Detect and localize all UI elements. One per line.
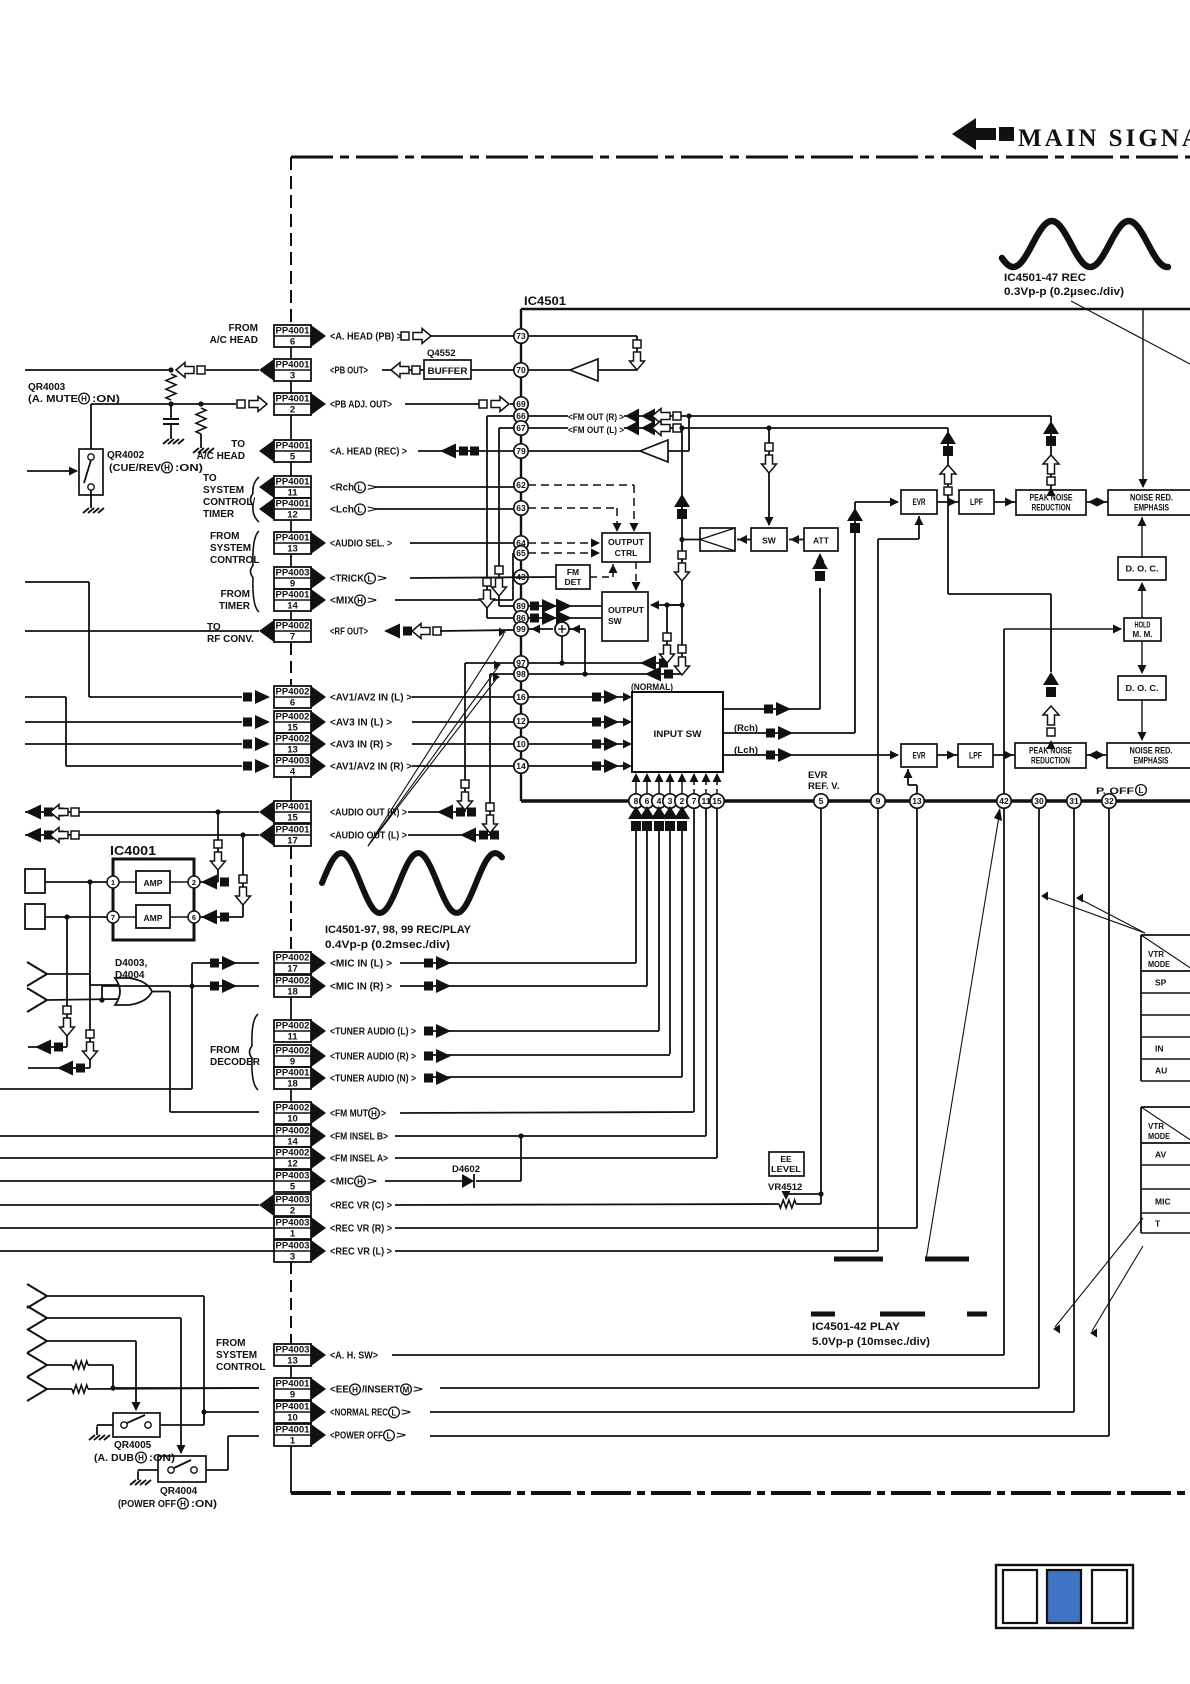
- svg-text:<A. H. SW>: <A. H. SW>: [330, 1351, 378, 1362]
- symbol black arrow A.HEAD(REC): [440, 444, 479, 459]
- wire chevron1 to NORMAL REC: [47, 1296, 207, 1423]
- svg-text:PP4002: PP4002: [276, 1147, 310, 1158]
- main signal legend arrow icon: [952, 118, 1014, 150]
- svg-text:IC4501-97, 98, 99 REC/PLAY: IC4501-97, 98, 99 REC/PLAY: [325, 924, 472, 936]
- svg-text:PP4002: PP4002: [276, 1020, 310, 1031]
- svg-text:TO: TO: [231, 439, 245, 450]
- svg-text:LPF: LPF: [969, 751, 982, 761]
- svg-text:6: 6: [290, 337, 295, 348]
- svg-text:14: 14: [516, 761, 526, 771]
- svg-text:30: 30: [1034, 796, 1044, 806]
- amp A2 box: [136, 905, 170, 928]
- IC4501 pin 73: [514, 329, 528, 343]
- svg-text:D4003,: D4003,: [115, 958, 147, 969]
- group label FROM SYSTEM CONTROL: [210, 531, 259, 566]
- svg-text:PP4001: PP4001: [276, 532, 311, 543]
- symbol sq-arrow pin89: [530, 599, 572, 614]
- wire riser to OUTPUT SW input: [650, 601, 685, 610]
- svg-text:D. O. C.: D. O. C.: [1126, 683, 1159, 693]
- connector PP4003 pin9 TRICK: [274, 567, 387, 590]
- block SW: [751, 528, 787, 551]
- svg-text:<Lch: <Lch: [330, 505, 354, 516]
- svg-text:AU: AU: [1155, 1066, 1167, 1076]
- switch QR4002: [79, 449, 103, 495]
- symbol cluster AUDIO OUT(R) left: [25, 805, 79, 820]
- wire pin feed x659 into INPUT SW: [655, 773, 664, 794]
- connector PP4001 pin11 Rch: [259, 476, 377, 499]
- svg-text:BUFFER: BUFFER: [428, 366, 469, 376]
- svg-text:7: 7: [692, 796, 697, 806]
- wire QR4005 left ground: [89, 1425, 113, 1440]
- svg-text:79: 79: [516, 446, 526, 456]
- svg-text:EVR: EVR: [808, 770, 828, 781]
- svg-text::ON): :ON): [92, 394, 120, 405]
- wire INPUT SW Rch output: [723, 502, 855, 733]
- wire REC VR(R) row: [395, 808, 917, 1228]
- connector column solid link segments: [290, 347, 292, 1493]
- svg-text:PP4002: PP4002: [276, 733, 310, 744]
- svg-text:<MIC: <MIC: [330, 1177, 354, 1188]
- svg-text:EMPHASIS: EMPHASIS: [1134, 503, 1169, 513]
- wire buffer to pin70: [471, 369, 514, 371]
- svg-text:PP4003: PP4003: [276, 1170, 310, 1181]
- wire REC triangle riser: [686, 413, 691, 451]
- block LPF row2: [958, 744, 993, 767]
- svg-text:L: L: [358, 505, 363, 514]
- svg-text:<AUDIO OUT (L) >: <AUDIO OUT (L) >: [330, 831, 407, 842]
- svg-text:11: 11: [287, 1032, 298, 1043]
- wire exit y1089: [0, 1088, 192, 1090]
- wire pin89 row: [499, 605, 602, 607]
- symbol sq-arrow MIC IN(L) right: [424, 956, 451, 970]
- wire pin feed x647 into INPUT SW: [643, 773, 652, 794]
- wire pin feed x636 into INPUT SW: [632, 773, 641, 794]
- svg-text:16: 16: [516, 692, 526, 702]
- wire join riser x192: [191, 963, 193, 1089]
- IC4501 pin 67: [514, 421, 528, 435]
- wire Rch to EVR: [855, 498, 899, 507]
- wire MIC IN(L) left segment: [192, 962, 259, 964]
- svg-text:NOISE RED.: NOISE RED.: [1130, 746, 1173, 756]
- group label FROM A/C HEAD: [210, 323, 258, 346]
- wire REC VR(C) row left: [0, 1204, 259, 1206]
- svg-text:<AUDIO SEL. >: <AUDIO SEL. >: [330, 539, 392, 550]
- wire FM OUT(R) riser x1051: [1050, 416, 1052, 490]
- block INPUT SW: [632, 692, 723, 772]
- IC U1 IC4501 label: [524, 294, 566, 308]
- symbol dbl arrow FM OUT(L): [625, 421, 681, 436]
- wire top feed to NRE1: [1139, 309, 1148, 488]
- IC4501 pin 5: [814, 794, 828, 808]
- symbol black up stack Rch riser: [847, 508, 863, 533]
- symbol black up stack below pin x659: [651, 806, 667, 831]
- wire amp2 internal: [119, 916, 188, 918]
- svg-text:PEAK NOISE: PEAK NOISE: [1029, 746, 1072, 756]
- page border dash-dot bottom: [291, 1491, 1190, 1495]
- svg-text:PP4003: PP4003: [276, 567, 310, 578]
- wire AV1/AV2 IN(L) feed: [89, 696, 242, 698]
- wire exit y1068: [28, 1067, 90, 1069]
- summing node plus circle: [555, 622, 569, 636]
- wire pin42 riser to HOLD: [1004, 625, 1122, 795]
- wire pin97 row to OUTPUT SW drop: [528, 662, 667, 664]
- resistor chevron4: [47, 1361, 88, 1369]
- wire RF OUT label to pin99: [440, 630, 514, 631]
- wire DOC lower to NRE2: [1138, 700, 1147, 741]
- svg-text:63: 63: [516, 503, 526, 513]
- symbol sq-arrow TUNER(N): [424, 1071, 451, 1085]
- svg-text:PP4002: PP4002: [276, 711, 310, 722]
- block EVR row2: [901, 744, 937, 767]
- dashed wire pin63 to OUTPUT CTRL: [528, 508, 622, 532]
- svg-text:13: 13: [287, 544, 298, 555]
- wire TUNER AUDIO(R) row: [424, 1054, 670, 1056]
- block ATT: [804, 528, 838, 551]
- symbol sq-arrow normal out: [764, 702, 791, 716]
- wire SW top feed: [765, 425, 774, 526]
- svg-text:5: 5: [290, 452, 296, 463]
- svg-text:<AV3 IN (L) >: <AV3 IN (L) >: [330, 718, 392, 729]
- svg-text:70: 70: [516, 365, 526, 375]
- symbol black arrow row663: [640, 656, 668, 671]
- wire pin86 row: [487, 617, 602, 619]
- svg-text:CTRL: CTRL: [615, 548, 638, 558]
- chevron input lower left: [27, 988, 47, 1012]
- connector PP4001 pin3 PB OUT: [259, 359, 368, 382]
- wire from left edge y582: [25, 582, 89, 697]
- wire summing right leg: [569, 625, 588, 677]
- svg-text:EE: EE: [780, 1154, 792, 1164]
- potentiometer VR4512: [779, 1191, 824, 1208]
- wire RF OUT row: [25, 630, 259, 632]
- svg-text:69: 69: [516, 399, 526, 409]
- block DOC lower: [1118, 676, 1166, 700]
- svg-text:<REC VR (R) >: <REC VR (R) >: [330, 1224, 392, 1235]
- svg-text:13: 13: [287, 1356, 298, 1367]
- group label FROM TIMER: [219, 589, 251, 612]
- chevron bottom 5: [27, 1377, 47, 1401]
- svg-text:<FM OUT (L) >: <FM OUT (L) >: [568, 425, 624, 436]
- wire EVR to LPF row1: [937, 498, 959, 507]
- IC4501 pin 70: [514, 363, 528, 377]
- wire amp1 internal: [119, 881, 188, 883]
- svg-text:DECODER: DECODER: [210, 1057, 261, 1068]
- symbol black arrow AUDIO OUT(L) right: [460, 828, 499, 843]
- IC4501 pin 32: [1102, 794, 1116, 808]
- wire stub to pin1: [45, 879, 107, 884]
- IC4501 pin 16: [514, 690, 528, 704]
- wire HOLD to DOC lower: [1138, 641, 1147, 674]
- IC4001 pin 2: [188, 876, 200, 888]
- svg-text:PP4001: PP4001: [276, 476, 311, 487]
- symbol open sq-arrow down x243: [236, 875, 251, 905]
- svg-text:<TUNER AUDIO (N) >: <TUNER AUDIO (N) >: [330, 1074, 416, 1085]
- svg-text:<MIC IN (L) >: <MIC IN (L) >: [330, 959, 392, 970]
- wire MIC IN(R) left hook: [102, 983, 259, 1000]
- wire OUTPUT SW lower tap x667: [664, 602, 682, 663]
- svg-text:FROM: FROM: [229, 323, 258, 334]
- group label FROM DECODER: [210, 1045, 261, 1068]
- svg-text:LPF: LPF: [970, 497, 983, 507]
- wire pin9 riser to EVR1: [878, 516, 924, 794]
- svg-text:PP4002: PP4002: [276, 1045, 310, 1056]
- wire pin6 to riser x243: [200, 832, 246, 917]
- svg-text:1: 1: [111, 878, 115, 887]
- IC4501 pin 98: [514, 667, 528, 681]
- IC4501 pin 13: [910, 794, 924, 808]
- IC4501 pin 64: [514, 536, 528, 550]
- symbol open sq-arrow down x682 lower: [675, 645, 690, 675]
- symbol sq-arrow AV3 IN(R): [243, 737, 270, 751]
- svg-text:<EE: <EE: [330, 1385, 349, 1396]
- ground below capacitor: [163, 431, 184, 444]
- leader arrows to pins 99/97/98: [368, 628, 506, 847]
- svg-text:H: H: [164, 463, 170, 472]
- IC4001 pin 1: [107, 876, 119, 888]
- svg-text:2: 2: [290, 1206, 295, 1217]
- wire crossed box output riser: [679, 425, 700, 674]
- svg-text:5.0Vp-p (10msec./div): 5.0Vp-p (10msec./div): [812, 1336, 930, 1348]
- capacitor C near QR4003: [163, 404, 179, 431]
- label Lch output: [734, 745, 758, 756]
- svg-text:MIC: MIC: [1155, 1197, 1171, 1207]
- wire chevron2 to OR gate: [47, 997, 119, 1002]
- IC4001 pin 6: [188, 911, 200, 923]
- wire pin feed x694 into INPUT SW: [690, 773, 699, 794]
- svg-text:FM: FM: [567, 567, 579, 577]
- brace FROM SYSTEM CONTROL: [251, 531, 260, 612]
- svg-text:<FM INSEL A>: <FM INSEL A>: [330, 1154, 388, 1165]
- svg-text:IC4001: IC4001: [110, 843, 156, 858]
- svg-text:SW: SW: [762, 536, 777, 546]
- connector PP4001 pin2 PB ADJ.OUT: [274, 393, 392, 416]
- pin label EVR REF.V.: [808, 770, 839, 792]
- IC4501 pin 2: [675, 794, 689, 808]
- wire ATT to SW: [789, 535, 804, 544]
- svg-text:89: 89: [516, 601, 526, 611]
- symbol black arrow pin2: [201, 875, 229, 890]
- wire chevron2 to QR4004: [47, 1318, 186, 1454]
- wire into QR4002: [27, 467, 78, 476]
- connector PP4003 pin4 AV1/AV2 IN(R): [274, 755, 412, 778]
- svg-text:>: >: [396, 1431, 406, 1442]
- input stub box lower: [25, 904, 45, 929]
- brace TO SYSTEM CONTROL/TIMER: [251, 477, 260, 522]
- symbol black up stack below pin x682: [674, 806, 690, 831]
- buffer box Q4552: [424, 360, 471, 379]
- svg-text:NOISE RED.: NOISE RED.: [1130, 493, 1173, 503]
- wire AV row y766 label to pin: [412, 765, 514, 767]
- svg-text:PP4001: PP4001: [276, 589, 311, 600]
- group label TO A/C HEAD: [197, 439, 246, 462]
- IC4501 pin 43: [514, 570, 528, 584]
- label NORMAL above INPUT SW: [631, 682, 673, 693]
- wire A.HEAD(PB) row: [430, 335, 514, 337]
- svg-text:QR4002: QR4002: [107, 450, 145, 461]
- svg-text::ON): :ON): [191, 1499, 217, 1510]
- dashed wire pin62 to OUTPUT CTRL: [528, 485, 639, 532]
- svg-text:FROM: FROM: [210, 531, 239, 542]
- svg-text:<RF OUT>: <RF OUT>: [330, 627, 368, 638]
- attenuator crossed box: [700, 528, 735, 551]
- wire MIX row: [395, 599, 513, 601]
- svg-text:OUTPUT: OUTPUT: [608, 605, 645, 615]
- svg-text:15: 15: [712, 796, 722, 806]
- block OUTPUT CTRL: [602, 533, 650, 562]
- svg-text:(NORMAL): (NORMAL): [631, 682, 673, 693]
- symbol open sq-arrow down x67: [60, 1006, 75, 1036]
- symbol open sq-arrow down x490: [483, 803, 498, 833]
- svg-text:<MIX: <MIX: [330, 596, 354, 607]
- symbol open sq-arrow down x487: [480, 578, 495, 608]
- wire pin5 drop to VR4512: [820, 808, 822, 1194]
- symbol sq-arrow into INPUT SW y722: [592, 715, 619, 729]
- wire AV row y722 label to pin: [412, 721, 514, 723]
- block OUTPUT SW: [602, 592, 648, 641]
- symbol open square-arrow PB ADJ right: [479, 397, 509, 412]
- svg-text:H: H: [357, 1177, 363, 1186]
- block EVR row1: [901, 490, 937, 514]
- wire drop pin2 to TUNER(N): [681, 831, 683, 1077]
- symbol sq-arrow into INPUT SW y744: [592, 737, 619, 751]
- connector PP4001 pin6 A.HEAD(PB): [274, 325, 402, 348]
- symbol open sq-arrow down x90: [83, 1030, 98, 1060]
- svg-text:18: 18: [287, 987, 298, 998]
- symbol black up stack below pin x636: [628, 806, 644, 831]
- svg-text:PP4001: PP4001: [276, 801, 311, 812]
- resistor chevron5: [47, 1385, 88, 1393]
- wire AV row y766 pin to INPUT SW: [528, 762, 632, 771]
- svg-text:VR4512: VR4512: [768, 1182, 802, 1193]
- svg-text:73: 73: [516, 331, 526, 341]
- svg-text:TIMER: TIMER: [219, 601, 251, 612]
- diode-OR gate D4003/D4004: [115, 978, 152, 1005]
- wire FM INSEL B row left: [0, 1135, 274, 1137]
- svg-text:3: 3: [290, 371, 295, 382]
- dashed wire pin65 to OUTPUT CTRL: [528, 549, 600, 558]
- IC4501 pin 63: [514, 501, 528, 515]
- group label FROM SYSTEM CONTROL bottom: [216, 1338, 265, 1373]
- svg-text:(POWER OFF: (POWER OFF: [118, 1499, 176, 1510]
- wire PB ADJ OUT row right: [405, 403, 480, 405]
- svg-text:>: >: [377, 574, 387, 585]
- waveform IC4501-42 PLAY square: [811, 1259, 987, 1314]
- wire pin42 drop to A.H.SW: [392, 808, 1004, 1355]
- wire INPUT SW Lch output: [723, 751, 899, 760]
- svg-text:IC4501-42 PLAY: IC4501-42 PLAY: [812, 1321, 901, 1333]
- svg-text:8: 8: [634, 796, 639, 806]
- connector PP4001 pin12 Lch: [259, 498, 377, 521]
- svg-text:<AV1/AV2 IN (R) >: <AV1/AV2 IN (R) >: [330, 762, 412, 773]
- svg-text:9: 9: [290, 1057, 295, 1068]
- svg-text:<PB ADJ. OUT>: <PB ADJ. OUT>: [330, 400, 392, 411]
- wire pin feed x706 into INPUT SW: [702, 773, 711, 794]
- svg-text:1: 1: [290, 1229, 296, 1240]
- wire TUNER AUDIO(N) row: [424, 1076, 682, 1078]
- connector PP4001 pin10 NORMAL REC: [274, 1401, 411, 1424]
- symbol sq-arrow into INPUT SW y766: [592, 759, 619, 773]
- svg-text:EVR: EVR: [913, 751, 926, 761]
- svg-text:SYSTEM: SYSTEM: [216, 1350, 257, 1361]
- svg-text:4: 4: [290, 767, 296, 778]
- leader lines to upper table: [1041, 892, 1145, 934]
- label QR4003: [28, 382, 120, 405]
- connector PP4002 pin14 FM INSEL B: [274, 1125, 388, 1148]
- waveform caption REC/PLAY: [325, 924, 472, 951]
- page border dashed left vertical segments: [290, 157, 292, 1344]
- wire SW to crossed box: [737, 535, 751, 544]
- svg-text:SP: SP: [1155, 978, 1167, 988]
- svg-text:T: T: [1155, 1219, 1161, 1229]
- svg-text:<AV3 IN (R) >: <AV3 IN (R) >: [330, 740, 392, 751]
- IC4501 pin 97: [514, 656, 528, 670]
- connector PP4002 pin17 MIC IN(L): [274, 952, 392, 975]
- svg-text:D. O. C.: D. O. C.: [1126, 563, 1159, 573]
- wire FM INSEL A row: [395, 1157, 717, 1159]
- symbol black up stack into ATT: [812, 553, 828, 581]
- amp triangle PB: [528, 359, 598, 381]
- svg-text:QR4005: QR4005: [114, 1440, 152, 1451]
- wire drop pin15 to FM INSEL A: [716, 808, 718, 1158]
- wire Lch row: [375, 508, 514, 510]
- svg-text:12: 12: [516, 716, 526, 726]
- wire chevron5 EE row: [88, 1388, 259, 1389]
- svg-text:67: 67: [516, 423, 526, 433]
- connector PP4002 pin12 FM INSEL A: [274, 1147, 388, 1170]
- wire TRICK row to FM DET: [410, 577, 556, 578]
- svg-text:4: 4: [657, 796, 662, 806]
- chevron bottom 3: [27, 1329, 47, 1353]
- svg-text:31: 31: [1069, 796, 1079, 806]
- wire PB ADJ to pin69: [510, 403, 514, 405]
- connector PP4003 pin3 REC VR(L): [274, 1240, 392, 1263]
- IC4501 pin 30: [1032, 794, 1046, 808]
- symbol sq-arrow MIC IN(R) right: [424, 979, 451, 993]
- wire drop pin4 to TUNER(L): [658, 831, 660, 1031]
- svg-text:>: >: [367, 596, 377, 607]
- connector PP4003 pin1 REC VR(R): [274, 1217, 392, 1240]
- leader line from REC waveform caption: [1071, 301, 1190, 364]
- wire LPF to PEAK row2: [993, 751, 1015, 760]
- svg-text:(CUE/REV: (CUE/REV: [109, 463, 161, 474]
- brace FROM DECODER: [250, 1014, 259, 1090]
- svg-text:6: 6: [192, 913, 196, 922]
- svg-text:14: 14: [287, 1137, 298, 1148]
- waveform caption IC4501-47 REC: [1004, 272, 1124, 298]
- svg-text:IC4501: IC4501: [524, 294, 566, 308]
- wire Rch row: [375, 486, 514, 488]
- svg-text:>: >: [367, 483, 377, 494]
- svg-text:PP4001: PP4001: [276, 359, 311, 370]
- wire chevron3 to QR4005: [47, 1341, 141, 1411]
- IC4501 pin 79: [514, 444, 528, 458]
- svg-text:L: L: [392, 1408, 397, 1417]
- IC4501 pin 14: [514, 759, 528, 773]
- waveform caption IC4501-42 PLAY: [812, 1321, 930, 1348]
- label VR4512: [768, 1182, 802, 1193]
- svg-text:7: 7: [111, 913, 115, 922]
- IC4501 pin 31: [1067, 794, 1081, 808]
- label D4602: [452, 1164, 480, 1175]
- svg-text:9: 9: [290, 1390, 295, 1401]
- svg-text:17: 17: [287, 836, 298, 847]
- svg-text:13: 13: [287, 745, 298, 756]
- block DOC upper: [1118, 557, 1166, 580]
- symbol black arrow y1047: [35, 1040, 63, 1055]
- wire chevron1 to OR gate: [47, 974, 119, 985]
- svg-text:M. M.: M. M.: [1133, 629, 1153, 639]
- svg-text:PP4003: PP4003: [276, 755, 310, 766]
